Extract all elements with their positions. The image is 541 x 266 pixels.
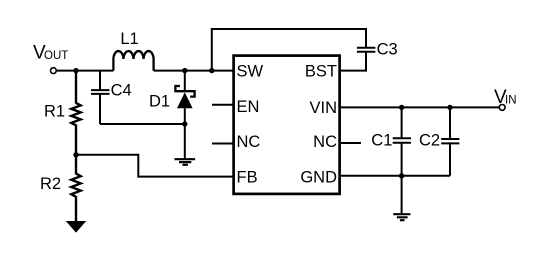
svg-text:OUT: OUT	[44, 50, 68, 62]
label D1	[149, 93, 170, 111]
svg-text:C1: C1	[371, 131, 392, 149]
ground (D1)	[175, 159, 196, 165]
svg-text:VIN: VIN	[309, 99, 337, 117]
inductor L1	[113, 51, 153, 71]
svg-text:L1: L1	[120, 30, 138, 48]
pin label FB	[237, 168, 258, 186]
pin label NC (right)	[313, 133, 337, 151]
svg-text:C4: C4	[111, 81, 132, 99]
pin stub EN	[212, 104, 233, 106]
junction dot: C1 top	[399, 105, 404, 110]
junction dot: D1 anode / C4 node	[182, 121, 187, 126]
wire: C3 to BST pin	[341, 53, 366, 71]
pin label GND	[300, 168, 337, 186]
svg-text:NC: NC	[237, 133, 261, 151]
svg-text:SW: SW	[237, 63, 264, 81]
wire: VOUT to L1 output node	[57, 70, 114, 72]
label C2	[419, 131, 440, 149]
terminal VOUT	[51, 68, 57, 74]
resistor R2	[71, 155, 80, 221]
IC U1 body	[234, 56, 340, 194]
wire: C4 to D1 anode	[100, 123, 185, 125]
svg-text:R2: R2	[40, 175, 61, 193]
label C3	[377, 41, 398, 59]
pin label SW	[237, 63, 264, 81]
svg-text:C2: C2	[419, 131, 440, 149]
junction dot: R1/R2 FB node	[73, 152, 78, 157]
capacitor C2	[441, 107, 459, 175]
svg-text:GND: GND	[300, 168, 337, 186]
label VOUT	[33, 42, 68, 63]
label R1	[44, 103, 65, 121]
pin stub NC right	[341, 142, 361, 144]
wire: L1 to IC SW pin	[154, 70, 233, 72]
capacitor C4	[91, 71, 110, 124]
label C4	[111, 81, 132, 99]
svg-text:NC: NC	[313, 133, 337, 151]
capacitor C3	[357, 48, 376, 52]
svg-text:IN: IN	[505, 95, 517, 107]
wire: top rail SW to C3	[212, 29, 366, 71]
pin label BST	[305, 63, 337, 81]
wire: VIN pin to VIN terminal	[341, 106, 499, 108]
junction dot: D1 cathode tap	[182, 68, 187, 73]
wire: FB node to FB pin	[76, 155, 233, 177]
wire: ground rail to input ground	[401, 176, 403, 213]
junction dot: ground rail	[399, 173, 404, 178]
label VIN	[494, 87, 517, 108]
arrow: VOUT return down arrow	[66, 221, 86, 233]
terminal VIN	[499, 105, 505, 111]
pin stub NC left	[212, 143, 233, 145]
svg-text:FB: FB	[237, 168, 258, 186]
pin label NC (left)	[237, 133, 261, 151]
svg-text:BST: BST	[305, 63, 337, 81]
junction dot: R1 tap	[73, 68, 78, 73]
svg-text:EN: EN	[237, 98, 260, 116]
wire: D1 anode to ground	[184, 124, 186, 158]
label C1	[371, 131, 392, 149]
capacitor C1	[393, 107, 411, 175]
ground (input)	[393, 214, 410, 220]
label R2	[40, 175, 61, 193]
junction dot: C2 top	[447, 105, 452, 110]
svg-text:R1: R1	[44, 103, 65, 121]
svg-text:D1: D1	[149, 93, 170, 111]
pin label VIN	[309, 99, 337, 117]
svg-text:C3: C3	[377, 41, 398, 59]
pin label EN	[237, 98, 260, 116]
junction dot: BST rail tap	[209, 68, 214, 73]
diode D1 schottky	[175, 71, 194, 124]
label L1	[120, 30, 138, 48]
wire: GND pin to C2 bottom ground rail	[341, 175, 450, 177]
resistor R1	[71, 71, 80, 155]
